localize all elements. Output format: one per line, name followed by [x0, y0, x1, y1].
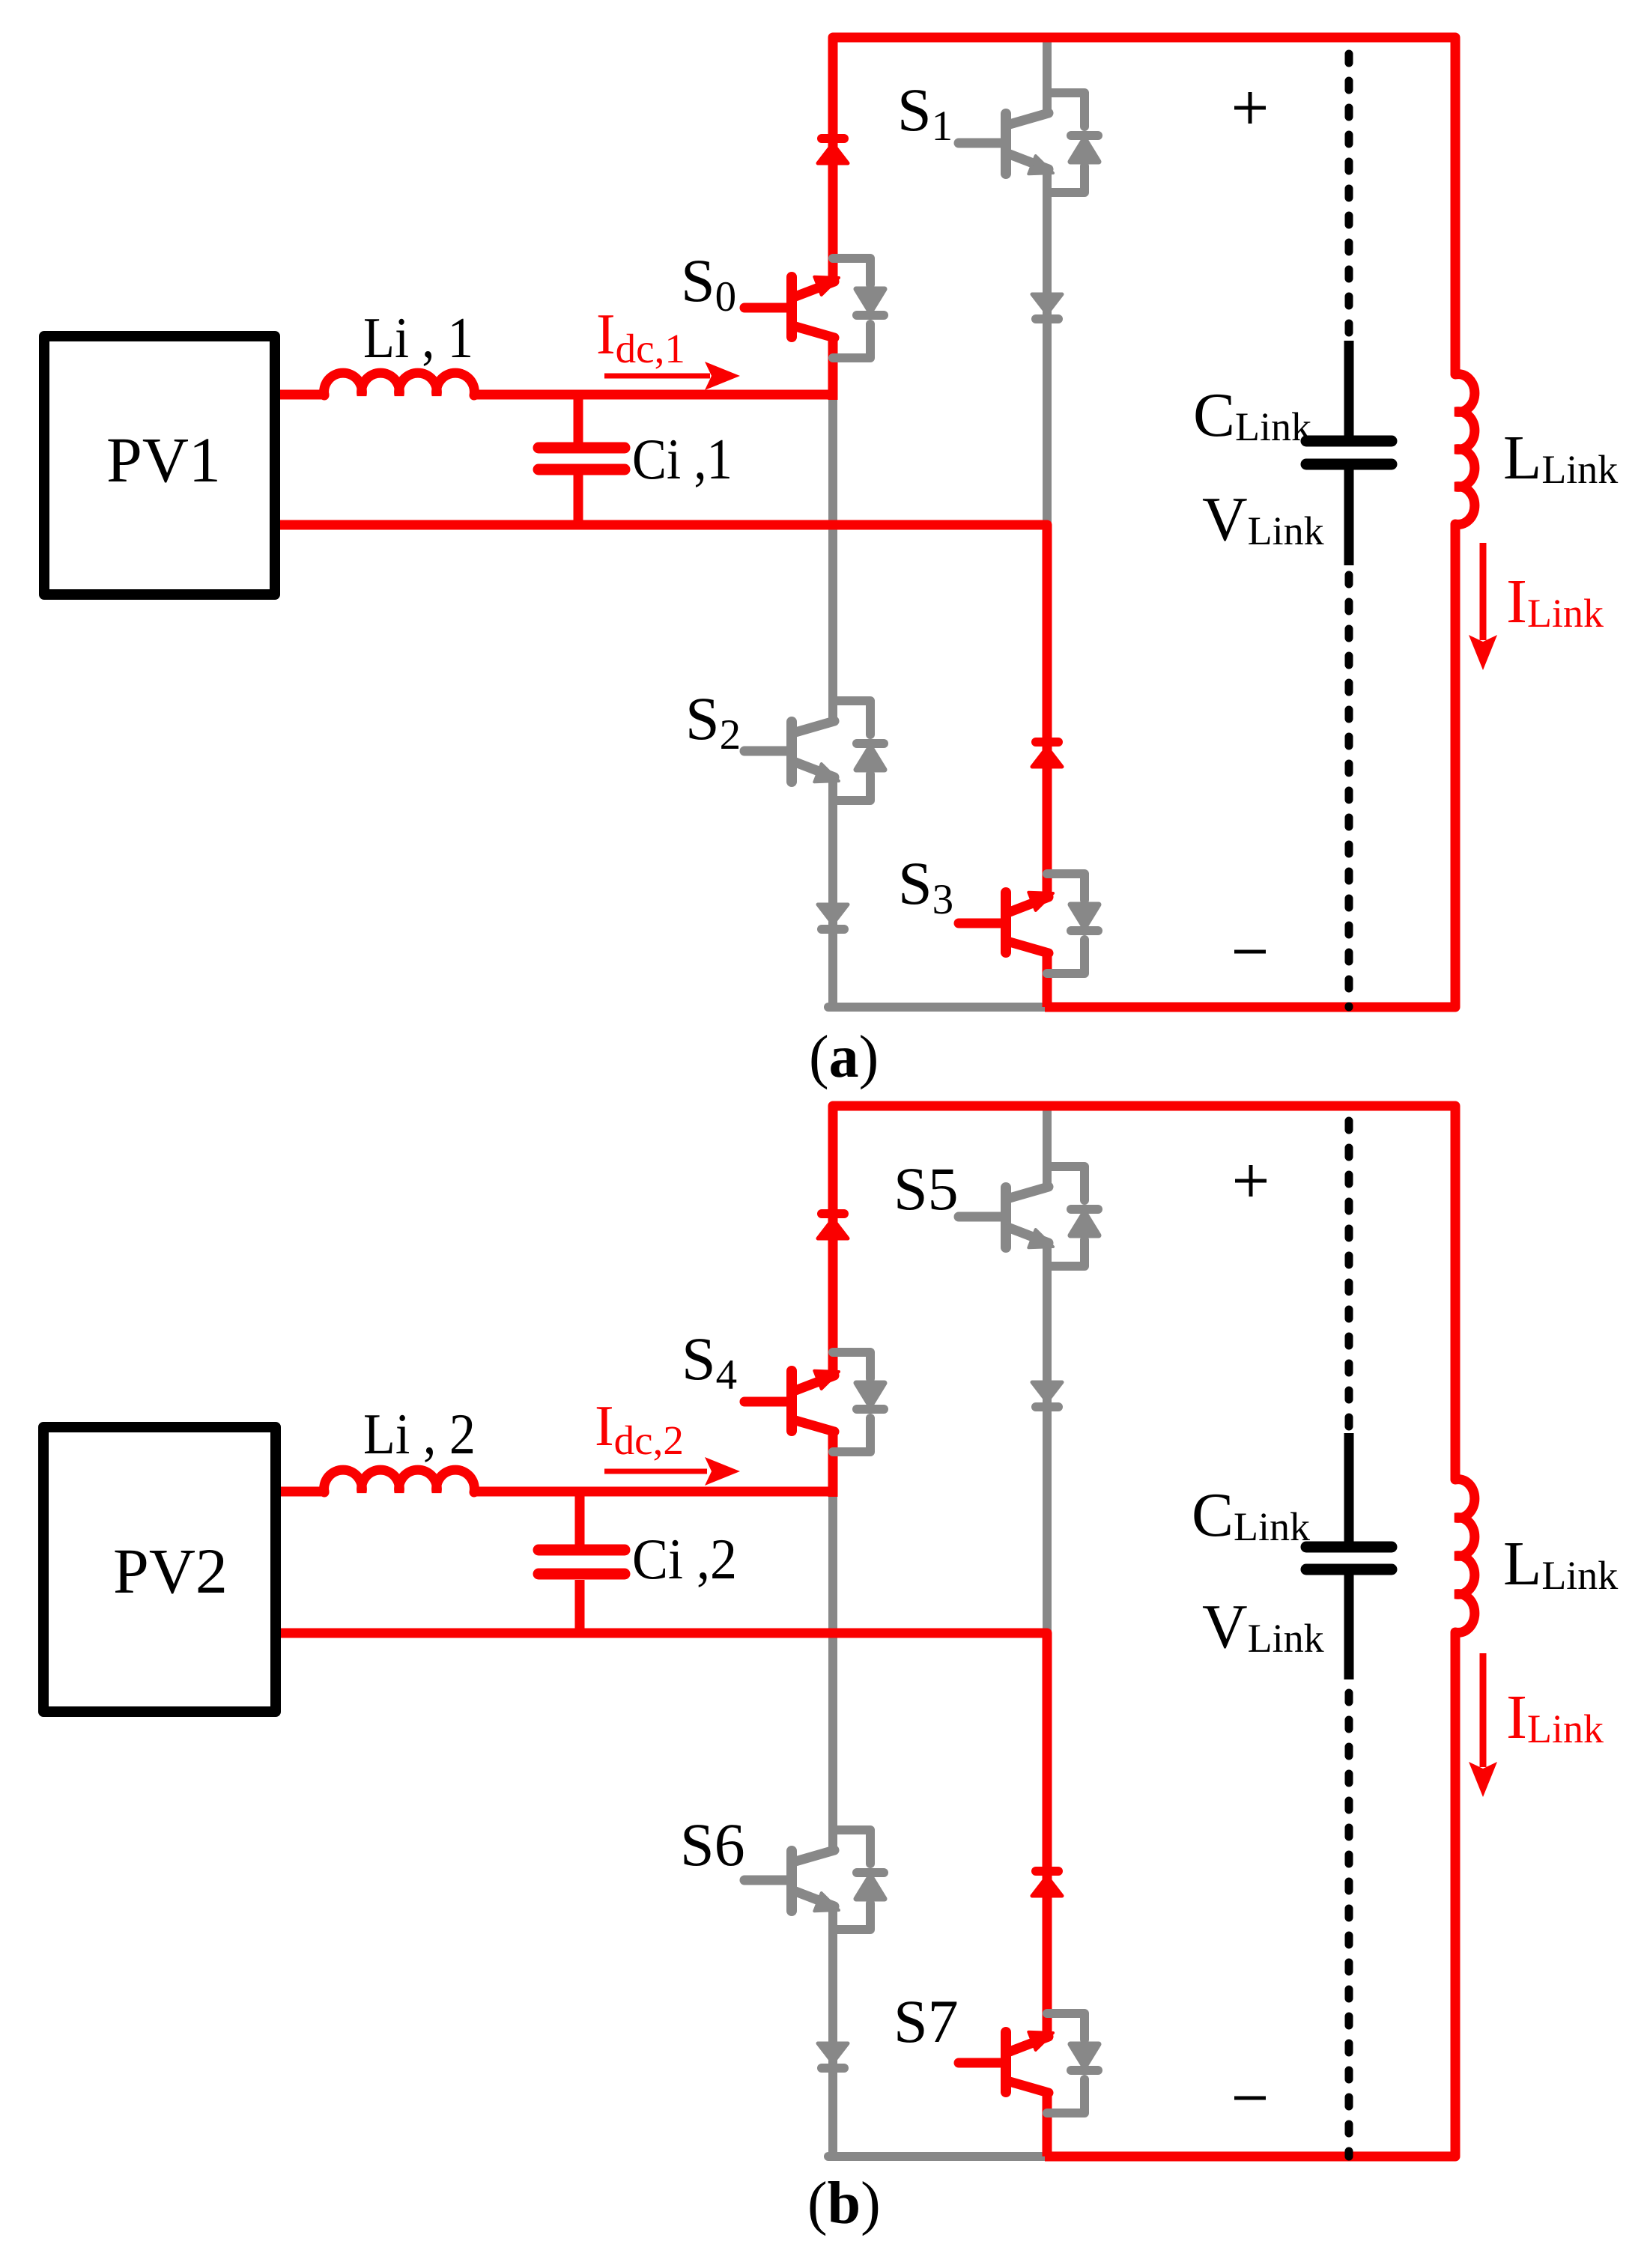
transistor S2 (gray IGBT, bottom of leg 1) [744, 721, 839, 782]
capacitor Ci,1 (red) leads [574, 395, 583, 525]
svg-text:Li , 1: Li , 1 [363, 305, 473, 370]
wire: bottom rail gray segment [828, 2152, 1047, 2161]
wire: dashed link bus (black) [1345, 1121, 1353, 1433]
diode: antiparallel loop of S7 [1047, 2013, 1099, 2113]
wire: dashed link bus (black) [1345, 54, 1353, 336]
transistor S1 (gray IGBT, top of leg 2) [959, 113, 1053, 174]
wire: leg2 upper segment (gray) from top rail through S5 and diode to input node [1043, 1106, 1052, 1636]
wire: leg2 lower segment (red) from input node through diode and S7 to bottom rail [1043, 1633, 1052, 2156]
inductor L_Link (red coil on right edge) [1455, 1480, 1475, 1633]
inductor Li,2 (red coil) [324, 1470, 475, 1492]
PV1 box [44, 336, 275, 595]
FIGURE A [44, 37, 1618, 1090]
svg-text:(a): (a) [809, 1024, 879, 1090]
wire: top rail, right edge and red part of bottom rail (red loop) [833, 37, 1455, 1007]
diode: series diode on leg1 above bottom rail (gray, conducts down) [818, 2043, 848, 2068]
svg-text:Li , 2: Li , 2 [363, 1402, 476, 1466]
wire: leg1 lower segment (gray) from input node through S2 to bottom rail [828, 397, 837, 1007]
svg-text:Ci ,1: Ci ,1 [632, 427, 732, 491]
transistor S5 (gray IGBT, top of leg 2) [959, 1187, 1053, 1247]
wire: bottom input wire from PV2 to leg2 [281, 1629, 1047, 1638]
inductor Li,1 (red coil) [324, 373, 475, 395]
diode: series diode on leg2 (red, conducts up) [1032, 1871, 1062, 1896]
wire: bottom rail gray segment [828, 1003, 1047, 1012]
diode: antiparallel loop of S2 [833, 701, 885, 800]
arrow for I_dc,1 [604, 374, 710, 379]
svg-text:PV1: PV1 [106, 424, 221, 496]
svg-text:S7: S7 [894, 1987, 959, 2055]
diode: antiparallel loop of S3 [1047, 874, 1099, 973]
node + sign (top of link bus) [1235, 1165, 1267, 1197]
FIGURE B [43, 1106, 1618, 2237]
diode: series diode on leg2 (red, conducts up) [1032, 742, 1062, 767]
transistor S6 (gray IGBT, bottom of leg 1) [744, 1850, 839, 1911]
svg-text:(b): (b) [807, 2171, 881, 2237]
diode: series diode on leg2 below S5 (gray, conducts down) [1032, 1382, 1062, 1407]
svg-text:PV2: PV2 [113, 1535, 228, 1607]
diode: series diode on leg1 below top rail (red, conducts up) [818, 139, 848, 163]
arrow for I_Link (red, downward) [1480, 1653, 1487, 1767]
wire: top rail, right edge and red part of bottom rail (red loop) [833, 1106, 1455, 2156]
svg-text:S5: S5 [894, 1155, 959, 1223]
transistor S0 (red IGBT, top of leg 1) [744, 277, 839, 338]
wire: leg2 lower segment (red) from input node through diode and S3 to bottom rail [1043, 525, 1052, 1007]
wire: leg1 upper segment (red) from top rail through diode to S4 [828, 1430, 838, 1497]
capacitor Ci,2 (red) leads [575, 1492, 585, 1633]
node - sign (bottom of link bus) [1234, 2097, 1266, 2100]
PV2 box [43, 1427, 276, 1712]
node - sign (bottom of link bus) [1234, 950, 1266, 954]
capacitor C_Link plates [1306, 1547, 1392, 1569]
diode: antiparallel loop of S0 [833, 258, 885, 358]
capacitor Ci,1 plates [539, 448, 625, 469]
wire: top input wire from PV2 with inductor Li,2 [281, 1487, 833, 1497]
svg-text:Ci ,2: Ci ,2 [632, 1527, 737, 1591]
diode: antiparallel loop of S5 [1047, 1167, 1099, 1266]
node + sign (top of link bus) [1234, 92, 1266, 124]
capacitor C_Link leads (black solid) [1344, 1433, 1354, 1679]
arrow for I_Link (red, downward) [1480, 543, 1487, 640]
diode: series diode on leg2 below S1 (gray, conducts down) [1032, 294, 1062, 319]
capacitor C_Link leads (black solid) [1344, 341, 1354, 565]
transistor S3 (red IGBT, bottom of leg 2) [959, 893, 1053, 953]
capacitor Ci,2 plates [539, 1550, 625, 1574]
diode: antiparallel loop of S6 [833, 1830, 885, 1930]
transistor S7 (red IGBT, bottom of leg 2) [959, 2032, 1053, 2093]
diode: antiparallel loop of S1 [1047, 93, 1099, 192]
wire: leg1 lower segment (gray) from input node through S6 to bottom rail [828, 1497, 837, 2156]
diode: antiparallel loop of S4 [833, 1352, 885, 1452]
wire: bottom input wire from PV1 to leg2 [280, 520, 1047, 530]
svg-text:S6: S6 [680, 1811, 745, 1879]
transistor S4 (red IGBT, top of leg 1) [744, 1371, 839, 1432]
capacitor C_Link plates [1306, 441, 1392, 464]
wire: leg1 upper segment (red) from top rail through diode to S0 [828, 336, 838, 400]
diode: series diode on leg1 above bottom rail (gray, conducts down) [818, 905, 848, 929]
inductor L_Link (red coil on right edge) [1455, 374, 1475, 525]
arrow for I_dc,2 [604, 1469, 707, 1474]
diode: series diode on leg1 below top rail (red, conducts up) [818, 1214, 848, 1238]
wire: top input wire from PV1 with inductor Li,1 [280, 390, 833, 400]
wire: leg2 upper segment (gray) from top rail through S1 and diode to input node [1043, 37, 1052, 528]
